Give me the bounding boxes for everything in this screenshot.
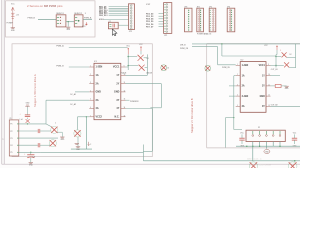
vertical wire left of D3 D4 [275,55,277,68]
vertical wire left of diodes [127,54,129,70]
wire X1 pin4 to C6 [19,144,38,146]
wire PWM_A across top of IC1 [69,47,128,49]
wire VCC arrow to D1 [140,51,142,54]
X2 pin tick 4 [272,131,274,134]
wire PB0_D8 to JP2 [109,6,129,8]
JP1 pin tick 7 [164,20,165,22]
svg-text:PD7_D7: PD7_D7 [146,26,153,28]
wire to D4 [276,65,284,67]
Q1 pin 2 [109,26,111,28]
IC2 right pin stub row 5 [266,105,271,107]
JP1 pin circle 1 [166,4,168,6]
svg-text:4A: 4A [96,107,99,110]
wire C4 to junction [27,118,29,120]
svg-text:OUT_B2: OUT_B2 [271,104,278,106]
wire jog left [150,107,161,109]
wire to gnd bar [61,132,63,137]
junction at D2 anode [128,65,129,66]
svg-text:X2: X2 [258,127,260,129]
svg-text:VCC1: VCC1 [259,65,266,67]
svg-text:D2: D2 [290,54,292,56]
ground between servo connectors [66,27,70,28]
wire SERVO1 to SERVO2 [66,21,74,23]
branch wire left [226,117,234,119]
X2 pin tick 3 [265,131,267,134]
svg-text:GND: GND [260,96,265,98]
wire X2 pin3 to gnd [265,142,267,149]
svg-text:2 Servos on M8 PWM pins: 2 Servos on M8 PWM pins [27,4,63,8]
svg-text:15: 15 [124,115,126,117]
servo section frame box [6,1,96,37]
JP2 pin circle 7 [130,20,132,22]
wire IC1 3Y stub [126,99,130,101]
svg-text:PWM/SRV: PWM/SRV [130,101,139,103]
X2 pin circle 2 [259,135,261,137]
wire C1 to ground [30,158,32,163]
wire down to ground [67,22,69,27]
svg-text:DIR_B: DIR_B [180,45,186,47]
component K1 near section2 left [205,66,211,72]
svg-text:2: 2 [55,123,56,125]
wire C5 to Q2 base [40,130,51,132]
svg-text:IC1: IC1 [94,61,97,63]
supply symbol plate 3 [11,16,14,18]
IC2 left pin stub row 1 [236,65,241,67]
wire to IC2 2A [229,85,236,87]
svg-text:JP6: JP6 [227,6,230,8]
svg-text:N.C.: N.C. [115,116,120,119]
svg-text:3Y: 3Y [116,99,119,102]
supply symbol plate 4 [12,17,14,19]
JP1 pin circle 7 [166,20,168,22]
SERVO2 pin 2 [75,19,77,21]
JP2 pin circle 4 [130,12,132,14]
svg-text:1 uF: 1 uF [20,119,23,121]
wire down to Q5 [252,146,254,161]
wire AREF to JP2 [104,19,129,21]
wire X2 pin4 down [272,142,274,147]
pin header JP2 [129,4,135,30]
VCC arrow symbol [11,7,14,10]
JP1 pin circle 6 [166,17,168,19]
ground under C1 [29,163,33,164]
polarized capacitor C1 [27,155,34,158]
wire IC1 1Y to cluster [126,74,148,76]
ground oval GND2 [264,150,270,154]
JP1 pin tick 9 [164,25,165,27]
svg-text:P2: P2 [10,131,12,133]
Q1 pin 1 [109,23,111,25]
servo connector SERVO2 [74,15,83,27]
IC1 left pin stub row 2 [89,74,94,76]
JP1 pin circle 4 [166,12,168,14]
motor B screw terminal X2 [246,130,285,141]
JP1 pin circle 9 [166,25,168,27]
X1 pin tick 2 [17,130,19,132]
VCC arrow on servo 2 wire [85,22,87,25]
long wire to section2 transistors [143,160,300,162]
wire gnd to C4 [27,106,29,114]
JP2 pin circle 8 [130,23,132,25]
svg-text:1-2EN: 1-2EN [242,65,249,67]
JP1 pin tick 3 [164,9,165,11]
IC1 right pin stub row 3 [121,83,126,85]
JP2 pin circle 10 [130,28,132,30]
VCC arrow at D1 [127,48,129,55]
wire PD5_D5 to JP1 [159,20,164,22]
diode D2 [139,65,145,71]
svg-text:2Y: 2Y [116,82,119,85]
wire to D3 [276,56,281,58]
JP1 pin tick 11 [164,31,165,33]
svg-text:1-2EN: 1-2EN [96,66,103,69]
IC2 right pin stub row 1 [266,65,271,67]
X2 pin tick 2 [259,131,261,134]
wire PD3_D3 to JP1 [159,15,164,17]
branch wire from DIR_B [221,44,223,56]
X1 pin tick 5 [17,151,19,153]
svg-text:Autodesk 123D Circuits: Autodesk 123D Circuits [250,164,271,167]
JP2 pin circle 9 [130,25,132,27]
wire Q4 collector up [76,117,78,130]
sheet frame left outer line [1,0,3,164]
wire X2 pin5 down [279,142,281,147]
svg-text:1Y: 1Y [262,75,265,77]
arrow 2 marker [88,142,90,146]
svg-text:1N4148: 1N4148 [120,73,126,75]
wire Q2 emitter to gnd [57,131,62,133]
svg-text:12: 12 [124,90,126,92]
branch wire across IC2 top to cluster [222,55,276,57]
JP1 pin tick 2 [164,6,165,8]
wire PWM_B to SERVO1 [38,19,56,21]
svg-text:OUT_B1: OUT_B1 [271,69,278,71]
X2 pin circle 1 [252,135,254,137]
SERVO2 pin 1 [75,16,77,18]
section 2 frame top edge [207,43,300,45]
svg-text:12: 12 [268,95,270,97]
svg-text:3A: 3A [96,99,99,102]
svg-text:2Y: 2Y [262,86,265,88]
JP2 pin circle 1 [130,5,132,7]
svg-text:P3: P3 [10,138,12,140]
svg-text:JP2: JP2 [129,31,132,33]
SERVO2 centre mark [78,20,80,22]
wire to C7 top [234,129,242,131]
wire PB4_D12 to JP2 [109,12,129,14]
transistor Q6 [288,162,297,171]
svg-text:GND: GND [96,91,102,94]
svg-text:1N4148: 1N4148 [146,73,152,75]
JP1 pin tick 1 [164,3,165,5]
wire D1 cathode [144,57,148,59]
wire PD6_D6 to JP1 [159,23,164,25]
svg-text:13: 13 [268,105,270,107]
ground at Q4 emitter [76,147,80,148]
svg-text:D1: D1 [147,58,149,60]
IC1 right pin stub row 4 [121,91,126,93]
wire PB5_D13 to JP2 [109,14,129,16]
wire Q4 to vertical [78,116,87,118]
vertical wire left of IC2 [233,76,235,130]
section 2 frame left edge [206,44,208,148]
JP1 pin tick 8 [164,22,165,24]
transistor Q5 [249,162,257,170]
JP2 pin circle 6 [130,17,132,19]
junction at D3 [275,56,276,57]
IC1 right pin stub row 1 [121,66,126,68]
svg-text:1 uF: 1 uF [32,157,35,159]
polarized capacitor C4 marking [26,119,30,123]
VCC arrow at D2 [140,46,142,51]
wire X2 pin2 down [259,142,261,147]
wire PB2_D10 to JP2 [109,9,129,11]
SERVO2 pin 3 [75,22,77,24]
svg-text:IC2: IC2 [240,59,243,61]
svg-text:DC_A1: DC_A1 [70,93,76,96]
svg-text:3A: 3A [242,105,245,108]
wire IC2 2Y right [271,85,276,87]
svg-text:2A: 2A [242,85,245,88]
junction on DIR_B wire [221,43,222,44]
power symbol stem wire [12,7,14,28]
svg-text:1A: 1A [242,74,245,77]
SERVO1 pin 2 [57,19,59,21]
wire PD4_D4 to JP1 [159,18,164,20]
JP2 pin circle 3 [130,10,132,12]
svg-text:4Y: 4Y [116,107,119,110]
wire along bottom of H-bridge [71,148,92,150]
transistor Q4 [74,130,81,137]
X2 pin circle 4 [272,135,274,137]
svg-text:P1: P1 [10,124,12,126]
vertical wire down left of X2 [225,118,227,148]
ground at R5 [284,86,288,87]
IC1 left pin stub row 6 [89,108,94,110]
wire junction to C1 [30,152,32,154]
crystal Y1 between sections [161,65,167,71]
diode D3 [282,52,287,57]
Q1 crystal plates [112,24,114,28]
JP1 pin tick 6 [164,17,165,19]
JP1 pin circle 8 [166,23,168,25]
mouse cursor [112,29,117,36]
svg-text:JP5: JP5 [209,6,212,8]
IC1 left pin stub row 7 [89,116,94,118]
wire PD2_D2 to JP1 [159,13,164,15]
IC1 left pin stub row 1 [89,66,94,68]
svg-text:POWER: POWER [7,23,14,25]
svg-text:PB5_D13: PB5_D13 [99,15,107,17]
svg-text:PWM_2B: PWM_2B [180,48,189,50]
horizontal power wire under X2 [236,145,300,147]
X1 pin tick 3 [17,137,19,139]
IC1 right pin stub row 6 [121,108,126,110]
JP1 pin circle 11 [166,31,168,33]
capacitor C5 [38,129,40,133]
svg-text:123D Circuits . io: 123D Circuits . io [247,157,261,160]
wire Q1 to JP2 [118,24,128,26]
wire X1 pin2 to C5 [19,130,38,132]
svg-text:11: 11 [268,84,270,86]
svg-text:PWM_A: PWM_A [84,17,92,20]
svg-text:13: 13 [124,99,126,101]
wire Q4 emitter to gnd [77,137,79,147]
svg-text:PWM_B: PWM_B [56,65,64,67]
IC2 left pin stub row 5 [236,105,241,107]
junction at x=259.6 [259,145,261,147]
svg-text:VCC2: VCC2 [96,116,103,119]
junction at D1 anode [128,56,129,57]
wire PD7_D7 to JP1 [159,26,164,28]
long wire section1 bottom [41,151,143,153]
JP1 pin circle 5 [166,14,168,16]
IC2 right pin stub row 3 [266,85,271,87]
svg-text:11: 11 [124,82,126,84]
SERVO1 pin 3 [57,22,59,24]
section 2 frame bottom edge [207,147,300,149]
wire to IC1 GND row [75,91,89,93]
wire to IC2 1A [234,75,236,77]
junction at x=252.8 [252,145,254,147]
wire X2 pin1 down [252,142,254,147]
capacitor C4 [25,115,30,117]
JP2 pin circle 5 [130,15,132,17]
X2 pin tick 5 [279,131,281,134]
svg-text:1A: 1A [96,74,99,77]
svg-text:Stepper 1 / DC motor drive A: Stepper 1 / DC motor drive A [33,74,37,107]
motor driver IC2 [240,62,266,113]
capacitor C8 [292,134,297,144]
wire D2 cathode [145,67,148,69]
ground at Q2 emitter [60,137,64,138]
X1 pin tick 4 [17,144,19,146]
IC2 left pin stub row 4 [236,95,241,97]
svg-text:3Y: 3Y [262,106,265,108]
wire to diode D1 [128,56,137,58]
JP1 pin tick 10 [164,28,165,30]
wire IC1 4Y to right [126,108,153,110]
motor driver A section frame [12,44,152,157]
servo connector SERVO1 [56,15,66,27]
IC1 right pin stub row 2 [121,74,126,76]
wire D4 cathode [289,67,295,69]
wire link at section1 bottom right [143,150,152,152]
svg-text:PWM_A: PWM_A [56,45,64,48]
svg-text:POWER ANALOG: POWER ANALOG [197,32,212,35]
junction X1 pin1 [27,123,28,124]
pin header JP5 [209,8,216,32]
svg-text:P4: P4 [10,145,12,147]
wire DIR_B across top [192,43,300,45]
JP1 pin circle 10 [166,28,168,30]
junction at x=280.0 [279,145,281,147]
diode D4 [284,62,289,67]
IC2 left pin stub row 2 [236,75,241,77]
svg-text:PD4_D4: PD4_D4 [146,18,154,21]
svg-text:VCC1: VCC1 [113,66,120,69]
IC2 right pin stub row 4 [266,95,271,97]
X2 pin circle 5 [279,135,281,137]
junction at Q6 [294,160,296,162]
svg-text:2: 2 [90,144,91,146]
wire VCC arrow down [276,50,278,55]
SERVO1 pin 1 [57,16,59,18]
vertical wire right of diodes [146,54,148,75]
svg-text:DC_A2: DC_A2 [70,103,76,106]
junction X1 pin5 [30,152,31,153]
wire IC1 2Y to right [126,83,162,85]
capacitor C7 [239,134,244,144]
wire jog down [142,145,144,161]
svg-text:10: 10 [268,74,270,76]
svg-text:3-4EN: 3-4EN [242,95,249,98]
supply symbol plate 1 [11,12,14,14]
IC1 right pin stub row 5 [121,99,126,101]
svg-text:Stepper 2 / DC motor drive B: Stepper 2 / DC motor drive B [190,98,194,133]
junction at D4 [275,65,276,66]
sheet frame bottom line [2,163,300,165]
transistor Q2 [51,126,58,133]
junction on IC2 left wire [233,117,234,118]
resistor R5 body [275,85,281,88]
vertical wire right side of section 1 [152,109,154,152]
resonator Q1 [108,22,118,29]
pin header JP4 [197,8,204,32]
svg-text:3: 3 [85,13,86,15]
wire IC1 VCC1 to cluster [126,66,129,68]
svg-text:JP3: JP3 [184,6,187,8]
wire to IC2 3-4EN [229,95,236,97]
wire X1 pin1 to Q2 [19,123,46,125]
IC2 left pin stub row 3 [236,85,241,87]
junction below IC1 [86,116,87,117]
IC1 right pin stub row 7 [121,116,126,118]
wire X1 pin5 right [19,151,41,153]
svg-text:2A: 2A [96,82,99,85]
svg-text:PWM_B: PWM_B [28,18,36,20]
wire IC2 VCC1 to cluster [271,65,277,67]
wire D3 cathode [287,57,296,59]
svg-text:P5: P5 [10,152,12,154]
capacitor C6 [38,143,40,147]
wire to IC1 VCC2 row [86,116,89,118]
pin header JP3 [185,8,193,32]
supply symbol plate 2 [12,14,14,16]
ground bar mid [75,143,79,144]
wire PWM_B to IC1 pin 1 [69,66,90,68]
wire IC1 3A to transistor column [46,99,89,101]
pin header JP1 [164,3,172,34]
ground under power input [11,28,15,29]
wire C6 to Q3 base [40,144,50,146]
X2 pin circle 3 [266,135,268,137]
wire PWM_2B down [217,47,219,65]
wire DIR_B down right side [295,44,297,68]
vertical wire to lower nets [160,84,162,108]
VCC arrow at D3 [276,45,278,50]
wire into Q2 collector [46,124,51,127]
pin header JP6 [227,8,235,32]
JP1 pin circle 3 [166,9,168,11]
wire IC2 1Y right [271,75,281,77]
svg-text:JP4: JP4 [197,6,200,8]
svg-text:14: 14 [124,107,126,109]
wire SERVO2 to PWM_A [83,19,92,21]
JP1 pin tick 4 [164,12,165,14]
junction on servo wire [68,21,69,22]
svg-text:JP1: JP1 [164,35,167,37]
